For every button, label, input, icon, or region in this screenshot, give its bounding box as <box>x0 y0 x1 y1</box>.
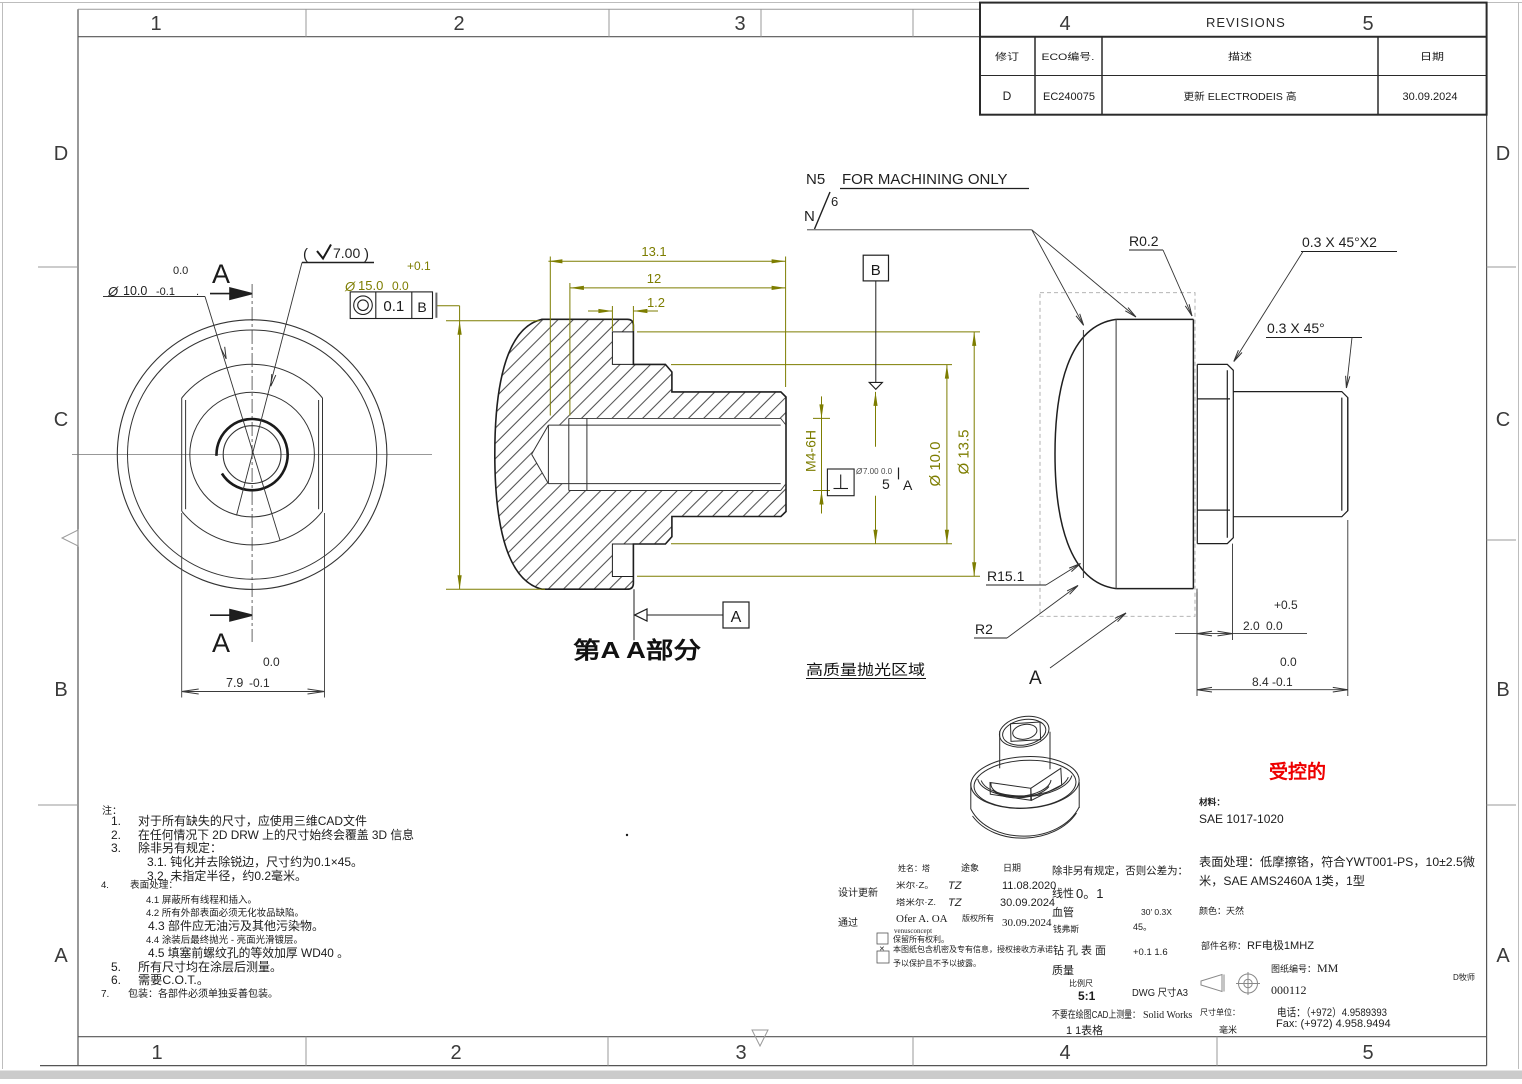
svg-text:0.1: 0.1 <box>383 298 404 315</box>
svg-text:13.1: 13.1 <box>641 244 666 259</box>
svg-text:A: A <box>54 945 68 967</box>
svg-text:A: A <box>212 628 230 658</box>
svg-text:需要C.O.T.。: 需要C.O.T.。 <box>138 973 209 987</box>
zone numbers top <box>150 13 745 35</box>
svg-text:2: 2 <box>453 13 464 35</box>
leader 0.3x45 <box>1267 320 1325 336</box>
svg-text:5: 5 <box>1362 1042 1373 1064</box>
svg-text:本图纸包含机密及专有信息，授权接收方承诺: 本图纸包含机密及专有信息，授权接收方承诺 <box>893 944 1053 954</box>
front view centerlines <box>72 454 432 456</box>
tolerance column <box>1052 864 1192 1037</box>
svg-text:在任何情况下 2D DRW 上的尺寸始终会覆盖 3D 信息: 在任何情况下 2D DRW 上的尺寸始终会覆盖 3D 信息 <box>138 827 414 842</box>
svg-text:修订: 修订 <box>995 51 1020 63</box>
svg-text:-0.1: -0.1 <box>156 286 175 298</box>
section cutting arrows A-A <box>210 288 252 621</box>
svg-text:钱弗斯: 钱弗斯 <box>1053 924 1079 934</box>
groove bottom <box>612 544 633 577</box>
front view thread major arc <box>216 419 287 490</box>
svg-text:(: ( <box>303 246 308 263</box>
svg-text:R15.1: R15.1 <box>987 568 1025 584</box>
svg-text:N: N <box>804 208 815 225</box>
front view flange circle with flats <box>182 364 323 398</box>
dim 1.2 <box>588 306 658 331</box>
svg-text:比例尺: 比例尺 <box>1069 978 1093 988</box>
svg-text:日期: 日期 <box>1003 863 1021 873</box>
section outline <box>495 319 786 589</box>
svg-text:N5: N5 <box>806 171 825 188</box>
svg-text:A: A <box>1029 668 1042 689</box>
side view stem <box>1233 392 1348 517</box>
thread major lines <box>569 418 786 490</box>
svg-text:3.1. 钝化并去除锐边，尺寸约为0.1×45。: 3.1. 钝化并去除锐边，尺寸约为0.1×45。 <box>147 854 363 869</box>
side view flange <box>1197 364 1233 543</box>
front view wrench flats <box>182 398 323 511</box>
svg-text:TZ: TZ <box>948 880 963 892</box>
svg-text:设计更新: 设计更新 <box>838 886 878 899</box>
dim dia 15.0 left <box>437 306 545 589</box>
side view cap outline <box>1055 319 1116 588</box>
svg-text:MM: MM <box>1317 961 1339 975</box>
iso milled flat bar <box>990 783 1031 801</box>
title block signatures <box>838 862 1056 968</box>
svg-text:质量: 质量 <box>1052 964 1074 977</box>
front view outer circle cap OD <box>117 320 387 590</box>
svg-text:1: 1 <box>151 1042 162 1064</box>
svg-text:+0.1 1.6: +0.1 1.6 <box>1133 947 1168 958</box>
notes column <box>101 804 414 1000</box>
svg-text:血管: 血管 <box>1052 905 1074 919</box>
svg-text:4: 4 <box>1059 13 1070 35</box>
svg-text:R0.2: R0.2 <box>1129 233 1159 249</box>
svg-text:更新 ELECTRODEIS 高: 更新 ELECTRODEIS 高 <box>1184 90 1297 103</box>
svg-text:A: A <box>1496 945 1510 967</box>
svg-text:米尔·Z。: 米尔·Z。 <box>896 880 934 890</box>
svg-text:5.: 5. <box>111 960 121 974</box>
svg-text:-0.1: -0.1 <box>1272 675 1293 689</box>
svg-text:-0.1: -0.1 <box>249 676 270 690</box>
iso groove ring front arcs <box>978 776 1072 797</box>
threaded hole M4 <box>532 418 781 490</box>
svg-text:0.0: 0.0 <box>392 279 409 293</box>
dim 13.1 <box>548 257 785 416</box>
svg-text:45。: 45。 <box>1133 922 1152 932</box>
svg-text:5: 5 <box>1362 13 1373 35</box>
svg-text:部件名称：: 部件名称： <box>1201 940 1246 951</box>
zone numbers bottom <box>151 1042 1373 1064</box>
svg-text:Ø: Ø <box>344 279 356 294</box>
svg-text:描述: 描述 <box>1228 51 1253 63</box>
svg-text:受控的: 受控的 <box>1269 760 1326 783</box>
svg-text:0.0: 0.0 <box>881 467 893 476</box>
svg-text:30.09.2024: 30.09.2024 <box>1402 91 1457 103</box>
svg-text:ECO编号.: ECO编号. <box>1042 51 1095 63</box>
svg-text:D: D <box>54 143 68 165</box>
zone letters left and right <box>54 143 1511 967</box>
svg-text:塔米尔·Z.: 塔米尔·Z. <box>896 897 936 907</box>
svg-text:0.0: 0.0 <box>173 265 188 277</box>
revision row D <box>1003 89 1458 103</box>
svg-text:7.00: 7.00 <box>333 245 360 261</box>
svg-text:1.: 1. <box>111 814 121 828</box>
svg-text:2.0: 2.0 <box>1243 619 1260 633</box>
iso square socket <box>1011 722 1041 741</box>
svg-text:0.0: 0.0 <box>263 655 280 669</box>
bottom gray strip <box>0 1071 1522 1080</box>
svg-text:毫米: 毫米 <box>1219 1024 1237 1035</box>
svg-text:A: A <box>212 259 230 289</box>
svg-text:11.08.2020: 11.08.2020 <box>1002 880 1056 892</box>
svg-text:DWG 尺寸A3: DWG 尺寸A3 <box>1132 986 1188 999</box>
svg-text:尺寸单位：: 尺寸单位： <box>1200 1007 1240 1017</box>
svg-text:途象: 途象 <box>961 862 979 873</box>
svg-text:15.0: 15.0 <box>358 278 383 293</box>
svg-text:SAE 1017-1020: SAE 1017-1020 <box>1199 812 1284 826</box>
svg-text:4.2 所有外部表面必须无化妆品缺陷。: 4.2 所有外部表面必须无化妆品缺陷。 <box>146 907 304 919</box>
third angle projection symbol <box>1201 972 1260 995</box>
svg-text:.: . <box>196 286 199 298</box>
leader R2 <box>975 621 993 637</box>
svg-text:venusconcept: venusconcept <box>894 927 932 935</box>
svg-text:B: B <box>417 299 426 315</box>
svg-text:12: 12 <box>647 271 661 286</box>
svg-text:A: A <box>731 609 742 626</box>
svg-text:10.0: 10.0 <box>123 284 147 298</box>
concentricity feature frame <box>350 292 432 319</box>
svg-text:3: 3 <box>734 13 745 35</box>
svg-text:EC240075: EC240075 <box>1043 91 1095 103</box>
svg-text:B: B <box>1496 679 1509 701</box>
svg-text:TZ: TZ <box>948 897 963 909</box>
side view dome edge lines <box>1083 319 1116 588</box>
datum B flag <box>863 255 888 281</box>
svg-text:线性: 线性 <box>1052 886 1074 900</box>
svg-text:0.3 X 45°X2: 0.3 X 45°X2 <box>1302 234 1377 250</box>
svg-text:2: 2 <box>450 1042 461 1064</box>
dim 8.4 side <box>1197 520 1348 696</box>
dim dia 10.0 <box>671 365 952 544</box>
dim 2.0 side <box>1175 544 1307 640</box>
svg-text:表面处理：: 表面处理： <box>130 879 178 891</box>
dim 12 <box>570 283 786 416</box>
svg-text:2.: 2. <box>111 828 121 842</box>
centering mark left <box>62 530 78 546</box>
svg-text:通过: 通过 <box>838 916 858 929</box>
svg-text:8.4: 8.4 <box>1252 675 1269 689</box>
svg-text:Solid Works: Solid Works <box>1143 1010 1192 1021</box>
svg-text:7.00: 7.00 <box>863 467 879 476</box>
svg-text:D: D <box>1003 89 1012 103</box>
svg-text:Ø 10.0: Ø 10.0 <box>927 441 944 486</box>
svg-text:1: 1 <box>150 13 161 35</box>
svg-text:除非另有规定：: 除非另有规定： <box>138 840 222 855</box>
svg-text:5:1: 5:1 <box>1078 989 1096 1003</box>
leader roughness 7.00 front <box>237 263 303 516</box>
svg-text:予以保护且不予以披露。: 予以保护且不予以披露。 <box>893 958 981 968</box>
dim M4-6H <box>813 396 830 513</box>
svg-text:FOR MACHINING ONLY: FOR MACHINING ONLY <box>842 171 1008 188</box>
leader R0.2 <box>1129 233 1159 249</box>
svg-text:5: 5 <box>882 476 890 492</box>
svg-text:表面处理：低摩擦铬，符合YWT001-PS，10±2.5微: 表面处理：低摩擦铬，符合YWT001-PS，10±2.5微 <box>1199 854 1475 869</box>
svg-text:0.0: 0.0 <box>1280 655 1297 669</box>
svg-text:钻 孔 表 面: 钻 孔 表 面 <box>1053 943 1106 957</box>
dim 5 with perpendicularity frame <box>875 392 877 544</box>
centering mark bottom <box>752 1030 768 1046</box>
svg-text:第A A部分: 第A A部分 <box>573 637 701 663</box>
svg-text:4: 4 <box>1059 1042 1070 1064</box>
svg-text:30.09.2024: 30.09.2024 <box>1000 897 1055 909</box>
svg-text:颜色：天然: 颜色：天然 <box>1199 905 1244 916</box>
svg-text:4.5 填塞前螺纹孔的等效加厚 WD40 。: 4.5 填塞前螺纹孔的等效加厚 WD40 。 <box>148 945 349 960</box>
leader 0.3x45x2 <box>1302 234 1377 250</box>
svg-text:4.1 屏蔽所有线程和插入。: 4.1 屏蔽所有线程和插入。 <box>146 894 257 906</box>
svg-text:B: B <box>54 679 67 701</box>
N5 FOR MACHINING ONLY <box>806 171 1008 188</box>
N5 leader arrows <box>1032 230 1084 325</box>
svg-text:4.3 部件应无油污及其他污染物。: 4.3 部件应无油污及其他污染物。 <box>148 918 324 933</box>
svg-text:对于所有缺失的尺寸，应使用三维CAD文件: 对于所有缺失的尺寸，应使用三维CAD文件 <box>138 813 367 828</box>
svg-text:4.4 涂装后最终抛光 - 亮面光滑镀层。: 4.4 涂装后最终抛光 - 亮面光滑镀层。 <box>146 934 303 946</box>
svg-text:C: C <box>1496 409 1510 431</box>
svg-text:+0.5: +0.5 <box>1274 598 1298 612</box>
svg-text:Ø: Ø <box>855 467 863 476</box>
front view stem circle <box>190 392 315 517</box>
svg-text:除非另有规定，否则公差为：: 除非另有规定，否则公差为： <box>1052 864 1188 877</box>
svg-text:D: D <box>1496 143 1510 165</box>
iso cap sides and bottom <box>970 783 972 810</box>
svg-text:Ø 13.5: Ø 13.5 <box>956 429 973 474</box>
svg-text:不要在绘图CAD上测量：: 不要在绘图CAD上测量： <box>1052 1008 1140 1021</box>
svg-text:1.2: 1.2 <box>647 295 665 310</box>
svg-text:Ø: Ø <box>107 284 119 299</box>
svg-text:日期: 日期 <box>1420 52 1444 63</box>
svg-text:3.: 3. <box>111 841 121 855</box>
groove top <box>612 332 633 365</box>
datum A flag <box>635 609 647 621</box>
svg-text:保留所有权利。: 保留所有权利。 <box>893 934 949 944</box>
svg-text:0.3 X 45°: 0.3 X 45° <box>1267 320 1325 336</box>
svg-text:0。1: 0。1 <box>1076 886 1103 901</box>
svg-text:4.: 4. <box>101 880 109 891</box>
dim 7.9 front <box>182 513 325 698</box>
leader R15.1 <box>987 568 1025 584</box>
iso boss arcs under stem <box>991 780 1051 796</box>
isometric view <box>970 713 1081 839</box>
svg-text:+0.1: +0.1 <box>407 259 431 273</box>
svg-text:6: 6 <box>831 194 838 209</box>
svg-text:7.: 7. <box>101 989 109 1000</box>
svg-text:000112: 000112 <box>1271 983 1307 997</box>
svg-text:A: A <box>903 477 913 493</box>
iso cap rim ellipses <box>970 754 1081 811</box>
svg-text:B: B <box>871 262 881 279</box>
svg-text:图纸编号：: 图纸编号： <box>1271 963 1316 974</box>
svg-text:3: 3 <box>735 1042 746 1064</box>
svg-text:材料：: 材料： <box>1198 797 1225 807</box>
svg-text:M4-6H: M4-6H <box>803 430 819 472</box>
svg-text:姓名：塔: 姓名：塔 <box>898 863 930 873</box>
revisions table <box>980 3 1487 115</box>
svg-text:0.0: 0.0 <box>1266 619 1283 633</box>
svg-text:✕: ✕ <box>879 946 885 953</box>
svg-text:30.09.2024: 30.09.2024 <box>1002 917 1052 929</box>
svg-text:1 1表格: 1 1表格 <box>1066 1023 1103 1037</box>
leader dia 10.0 -0.1 front <box>205 297 280 541</box>
svg-text:版权所有: 版权所有 <box>962 913 994 923</box>
svg-text:7.9: 7.9 <box>226 676 243 690</box>
svg-text:包装：各部件必须单独妥善包装。: 包装：各部件必须单独妥善包装。 <box>128 987 278 1000</box>
side view dashed detail box <box>1040 293 1195 617</box>
svg-text:30′ 0.3X: 30′ 0.3X <box>1141 907 1172 917</box>
svg-text:REVISIONS: REVISIONS <box>1206 15 1286 30</box>
svg-text:D牧师: D牧师 <box>1453 972 1475 982</box>
svg-text:6.: 6. <box>111 973 121 987</box>
svg-text:R2: R2 <box>975 621 993 637</box>
svg-text:C: C <box>54 409 68 431</box>
svg-text:所有尺寸均在涂层后测量。: 所有尺寸均在涂层后测量。 <box>138 959 282 974</box>
section view hatched body <box>495 319 786 589</box>
dim dia 13.5 <box>637 332 980 576</box>
front view thread minor circle <box>223 426 281 484</box>
svg-text:米，SAE AMS2460A 1类，1型: 米，SAE AMS2460A 1类，1型 <box>1199 874 1365 888</box>
iso stem cylinder <box>997 713 1051 751</box>
svg-text:Fax: (+972) 4.958.9494: Fax: (+972) 4.958.9494 <box>1276 1018 1391 1030</box>
svg-text:Ofer A. OA: Ofer A. OA <box>896 913 948 925</box>
front view groove outer edge circle <box>128 330 377 579</box>
svg-text:): ) <box>364 246 369 263</box>
svg-text:高质量抛光区域: 高质量抛光区域 <box>806 662 925 679</box>
cutting face datum line below section <box>633 589 635 640</box>
svg-text:RF电极1MHZ: RF电极1MHZ <box>1247 938 1314 952</box>
